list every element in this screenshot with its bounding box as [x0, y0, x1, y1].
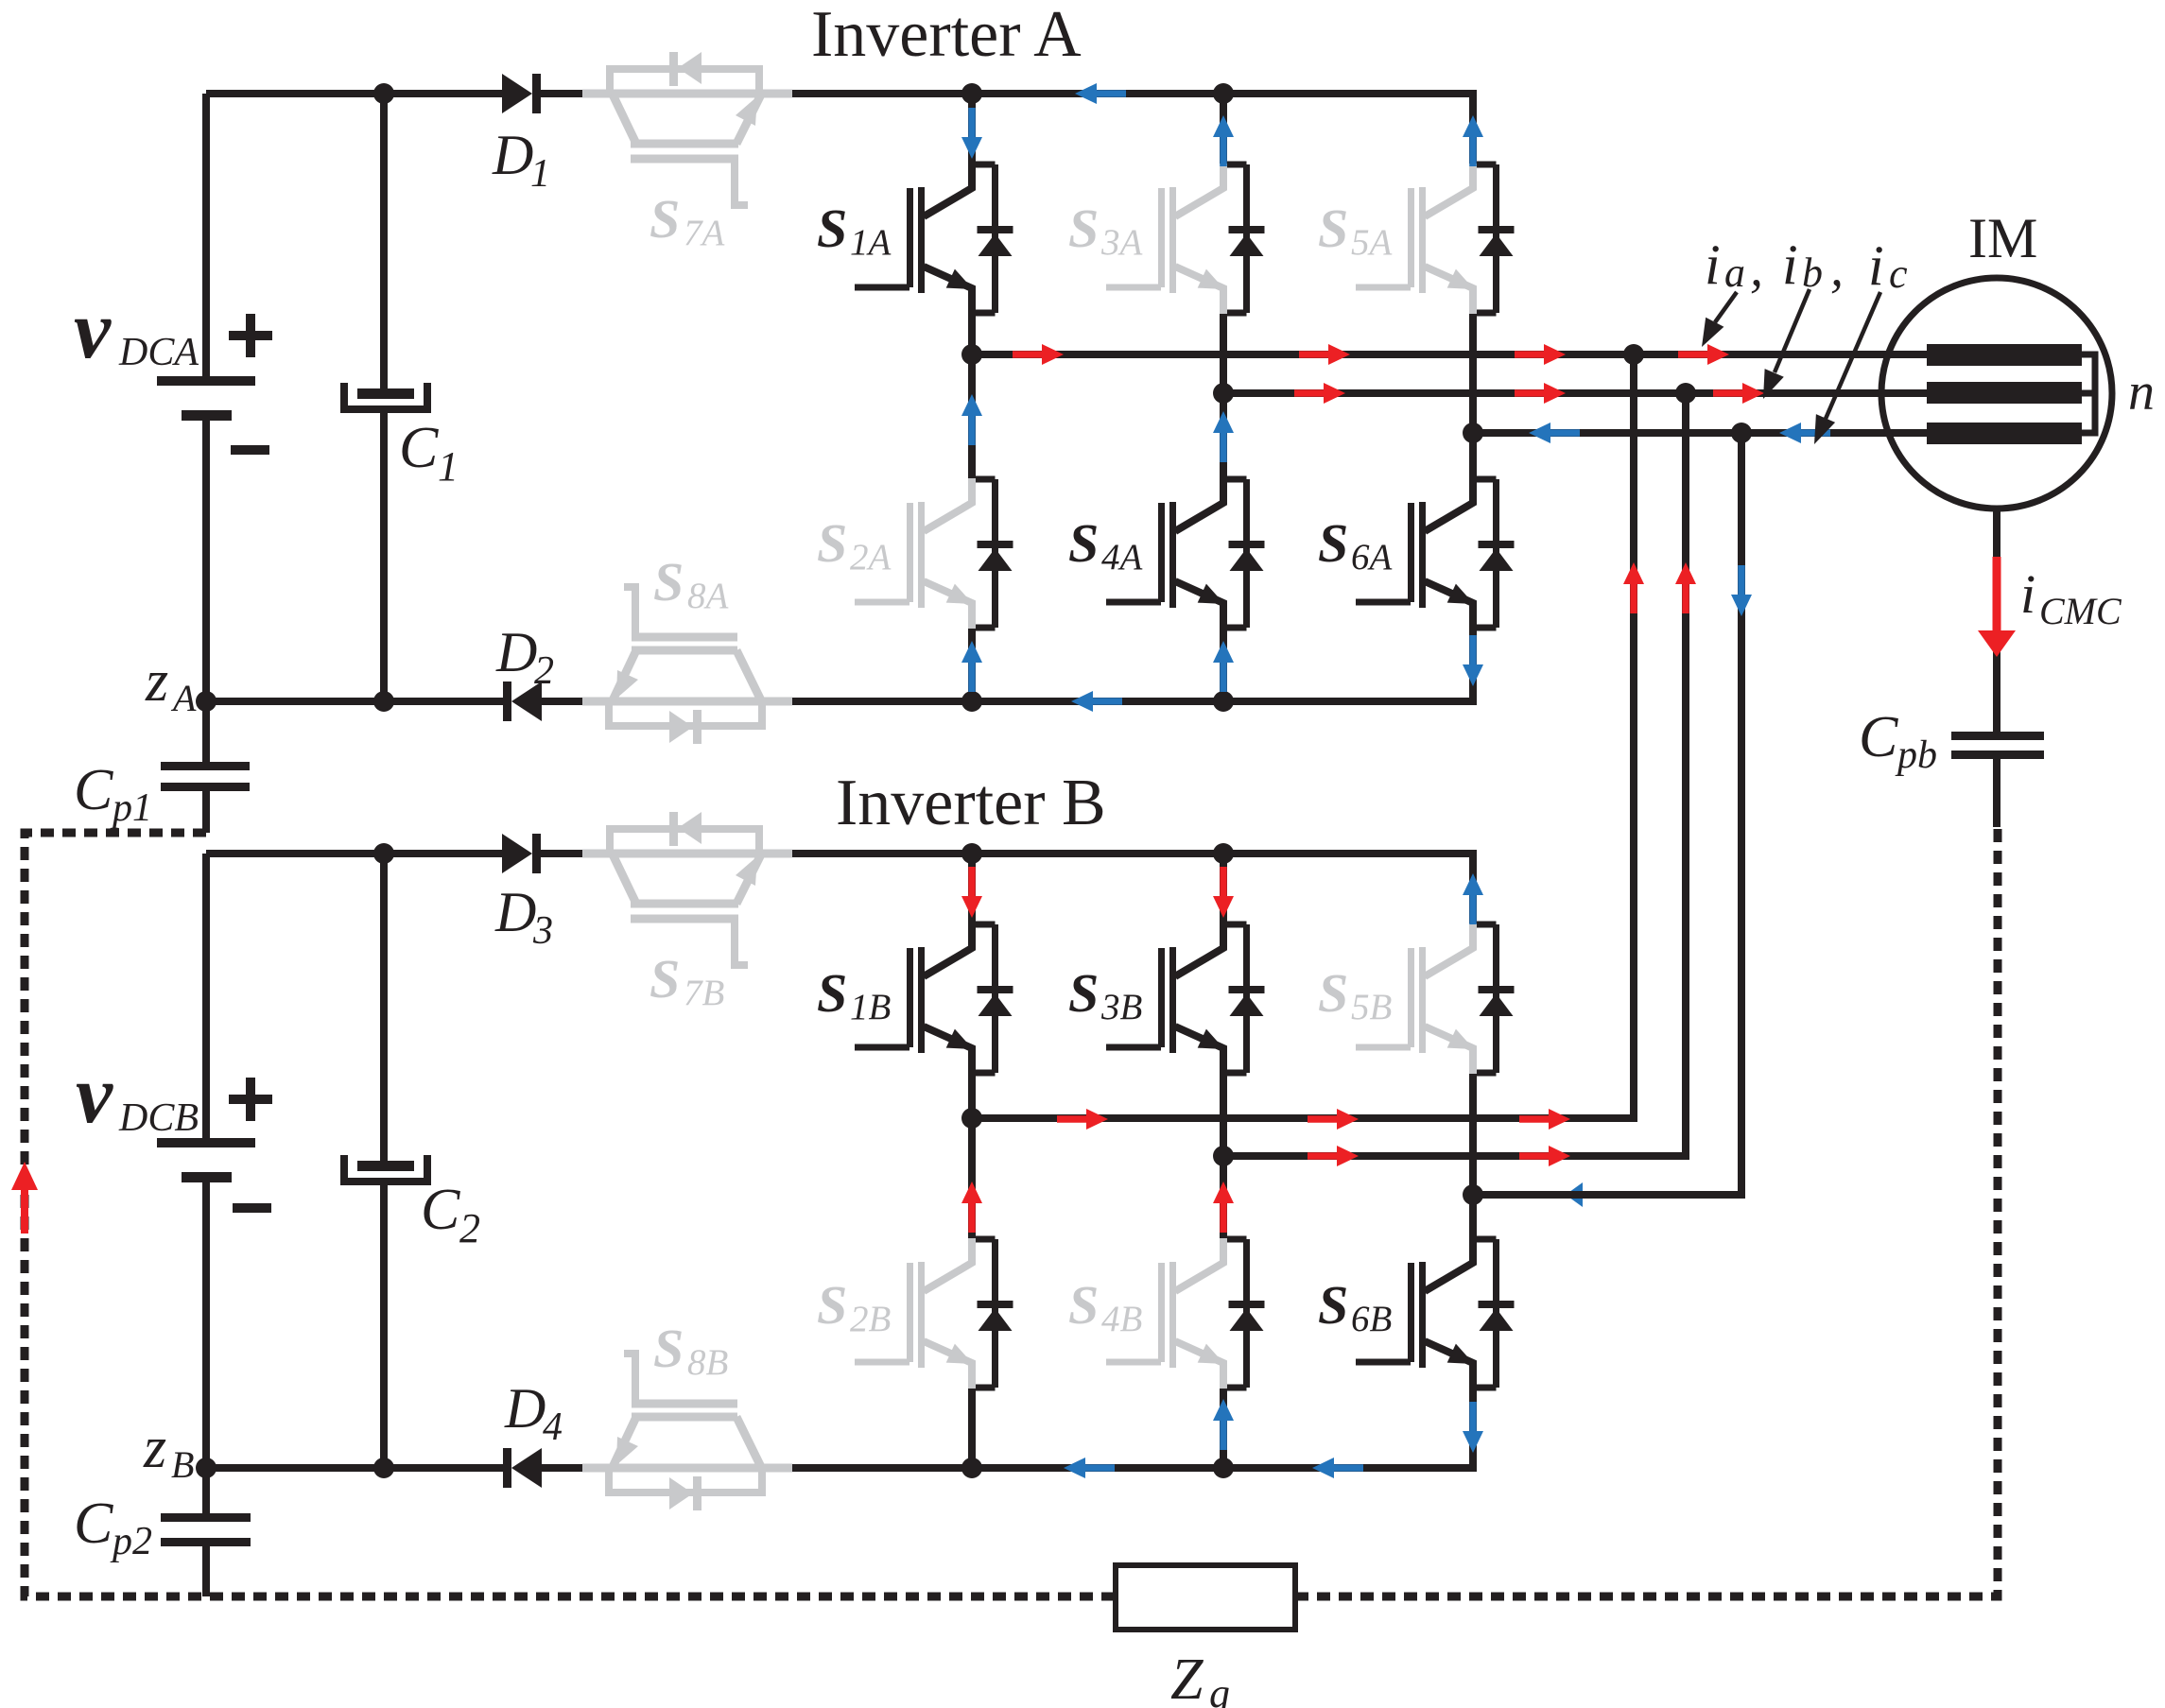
svg-text:8B: 8B: [687, 1342, 728, 1383]
svg-text:g: g: [1209, 1670, 1230, 1708]
svg-text:b: b: [1802, 250, 1823, 296]
svg-text:D: D: [495, 621, 537, 683]
svg-text:CMC: CMC: [2039, 590, 2122, 632]
svg-text:7A: 7A: [684, 213, 725, 253]
svg-text:D: D: [494, 881, 536, 943]
svg-text:S: S: [649, 188, 680, 250]
svg-text:C: C: [421, 1178, 460, 1242]
svg-text:S: S: [649, 948, 680, 1009]
svg-text:3A: 3A: [1100, 222, 1143, 263]
svg-text:IM: IM: [1968, 207, 2037, 269]
svg-text:C: C: [1859, 705, 1898, 769]
svg-text:v: v: [76, 1049, 113, 1141]
svg-text:Inverter B: Inverter B: [836, 767, 1106, 839]
svg-text:i: i: [1868, 234, 1884, 297]
svg-text:1B: 1B: [850, 987, 891, 1027]
svg-text:B: B: [171, 1443, 194, 1486]
svg-text:5B: 5B: [1351, 987, 1392, 1027]
svg-text:6A: 6A: [1351, 537, 1393, 578]
svg-text:Z: Z: [1170, 1648, 1204, 1708]
svg-text:C: C: [399, 416, 439, 480]
svg-text:6B: 6B: [1351, 1299, 1392, 1339]
svg-text:D: D: [504, 1377, 546, 1440]
svg-text:C: C: [74, 1492, 113, 1556]
svg-text:1A: 1A: [850, 222, 892, 263]
svg-text:S: S: [817, 1274, 847, 1336]
svg-text:S: S: [1068, 512, 1099, 574]
svg-text:z: z: [145, 649, 168, 714]
svg-text:S: S: [1068, 962, 1099, 1024]
svg-text:2: 2: [534, 649, 554, 693]
svg-text:2: 2: [459, 1205, 480, 1251]
svg-text:i: i: [1782, 233, 1798, 296]
svg-text:pb: pb: [1895, 733, 1937, 777]
svg-text:7B: 7B: [684, 973, 724, 1013]
svg-text:n: n: [2128, 363, 2155, 422]
svg-text:S: S: [817, 962, 847, 1024]
svg-text:4A: 4A: [1101, 537, 1143, 578]
svg-text:D: D: [492, 124, 533, 186]
svg-text:S: S: [1068, 198, 1099, 259]
svg-text:S: S: [1318, 1274, 1348, 1336]
svg-text:,: ,: [1750, 239, 1763, 298]
svg-text:5A: 5A: [1351, 222, 1393, 263]
svg-text:DCB: DCB: [118, 1096, 199, 1140]
svg-text:8A: 8A: [687, 576, 729, 616]
svg-text:DCA: DCA: [118, 331, 199, 374]
svg-text:3: 3: [532, 909, 553, 953]
svg-text:S: S: [817, 198, 847, 259]
svg-text:C: C: [74, 758, 113, 822]
svg-text:S: S: [817, 512, 847, 574]
svg-text:z: z: [143, 1416, 166, 1480]
svg-text:a: a: [1724, 250, 1745, 296]
svg-text:A: A: [170, 677, 197, 719]
svg-text:i: i: [2020, 563, 2035, 625]
svg-text:p2: p2: [110, 1520, 152, 1563]
svg-text:i: i: [1705, 233, 1721, 296]
svg-text:v: v: [74, 285, 112, 376]
svg-text:S: S: [653, 1318, 684, 1379]
svg-text:4B: 4B: [1101, 1299, 1142, 1339]
svg-text:S: S: [1318, 962, 1348, 1024]
svg-text:2B: 2B: [850, 1299, 891, 1339]
svg-text:S: S: [653, 551, 684, 612]
svg-text:1: 1: [438, 443, 459, 490]
svg-text:,: ,: [1830, 239, 1844, 298]
svg-text:S: S: [1068, 1274, 1099, 1336]
svg-text:c: c: [1889, 250, 1908, 297]
svg-text:4: 4: [543, 1406, 563, 1449]
svg-text:2A: 2A: [850, 537, 892, 578]
svg-text:1: 1: [530, 152, 550, 196]
svg-text:p1: p1: [110, 786, 152, 830]
svg-text:S: S: [1318, 512, 1348, 574]
svg-text:S: S: [1318, 198, 1348, 259]
svg-text:Inverter A: Inverter A: [811, 0, 1082, 71]
svg-text:3B: 3B: [1100, 987, 1142, 1027]
